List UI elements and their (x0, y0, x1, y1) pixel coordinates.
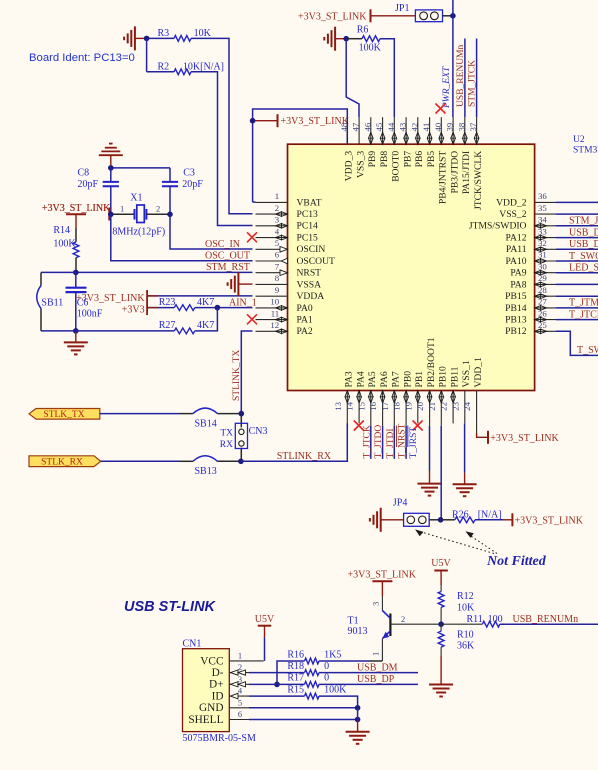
CN1 pin 4 (ID) (229, 695, 249, 697)
wire net pin 31 (556, 260, 598, 262)
U2 pin 17 (PA7) (393, 391, 395, 426)
svg-text:4: 4 (275, 226, 280, 236)
svg-text:SB13: SB13 (195, 466, 217, 477)
U2 pin 6 (OSCOUT) (256, 260, 288, 262)
U2 pin 48 (VDD_3) (346, 117, 348, 144)
svg-text:100nF: 100nF (77, 309, 103, 320)
svg-text:42: 42 (409, 123, 419, 132)
resistor R27 (76, 330, 175, 332)
node C6 bottom (73, 328, 79, 334)
svg-text:0: 0 (324, 661, 329, 672)
solder bridge SB14 (193, 408, 218, 414)
U2 pin 24 (VDD_1) (476, 391, 478, 424)
svg-text:PC13: PC13 (297, 209, 319, 220)
U2 pin 38 (PA15/JTDI) (464, 117, 466, 144)
wire VDDA (147, 295, 252, 297)
svg-text:R18: R18 (287, 661, 304, 672)
svg-text:PA9: PA9 (510, 268, 526, 279)
svg-text:29: 29 (538, 273, 547, 283)
svg-text:X1: X1 (130, 193, 142, 204)
node T1 base junction (438, 621, 444, 627)
svg-text:C8: C8 (78, 168, 90, 179)
wire STLK_TX (100, 413, 180, 415)
svg-text:+3V3_ST_LINK: +3V3_ST_LINK (515, 515, 584, 526)
wire pin38 vertical (464, 39, 466, 118)
node crystal rail (108, 165, 114, 171)
U2 pin 39 (PB3/JTDO) (452, 117, 454, 144)
wire CN1 pin5 (249, 707, 358, 709)
svg-text:VSS_1: VSS_1 (461, 360, 472, 387)
U2 pin 5 (OSCIN) (256, 248, 288, 250)
svg-text:12: 12 (270, 320, 279, 330)
svg-text:1: 1 (371, 652, 381, 656)
svg-text:T_JTCK: T_JTCK (569, 309, 598, 320)
svg-text:STLINK_RX: STLINK_RX (277, 451, 332, 462)
svg-text:3: 3 (238, 674, 242, 684)
svg-text:T_SWO: T_SWO (569, 251, 598, 262)
svg-text:15: 15 (356, 401, 366, 410)
svg-text:T_JRST: T_JRST (409, 427, 419, 459)
svg-text:26: 26 (538, 308, 547, 318)
wire net pin 26 (556, 319, 598, 321)
svg-text:VDD_2: VDD_2 (496, 197, 527, 208)
wire SB11 bottom (41, 330, 76, 332)
svg-text:OSCOUT: OSCOUT (297, 256, 336, 267)
svg-text:PA0: PA0 (297, 303, 313, 314)
svg-text:PA2: PA2 (297, 326, 313, 337)
svg-text:PA12: PA12 (506, 233, 527, 244)
U2 pin 37 (JTCK/SWCLK) (476, 117, 478, 144)
wire/net T_JTDI pin 17 (393, 426, 395, 459)
wire R23 to pin10 (195, 307, 253, 309)
U2 pin 28 (PB15) (535, 295, 556, 297)
wire net pin 27 (556, 307, 598, 309)
U2 pin 42 (PB6) (417, 117, 419, 144)
U2 pin 45 (PB8) (382, 117, 384, 144)
svg-text:PB5: PB5 (426, 151, 437, 168)
svg-text:PA4: PA4 (355, 371, 366, 387)
U2 pin 44 (BOOT0) (393, 117, 395, 144)
svg-text:PB7: PB7 (402, 151, 413, 168)
svg-text:31: 31 (538, 250, 547, 260)
svg-text:PB1: PB1 (414, 371, 425, 388)
svg-text:6: 6 (238, 709, 242, 719)
U2 pin 26 (PB13) (535, 319, 556, 321)
svg-text:3: 3 (371, 602, 381, 606)
svg-text:TX: TX (220, 428, 233, 438)
ground (CN1) (357, 720, 359, 732)
wire pin23 to ground (464, 423, 466, 472)
svg-text:R12: R12 (457, 591, 474, 602)
svg-text:U2: U2 (573, 135, 585, 145)
svg-text:8: 8 (275, 273, 280, 283)
svg-text:STM_RST: STM_RST (206, 262, 250, 273)
svg-text:PB12: PB12 (505, 326, 527, 337)
svg-text:NRST: NRST (297, 268, 322, 279)
svg-text:3: 3 (275, 215, 280, 225)
svg-text:STM32F103CBT6: STM32F103CBT6 (573, 146, 598, 156)
svg-text:VSSA: VSSA (297, 279, 322, 290)
svg-text:PA7: PA7 (391, 371, 402, 387)
U2 pin 40 (PB4/JNTRST) (440, 117, 442, 144)
svg-text:USB_RENUMn: USB_RENUMn (456, 44, 466, 107)
svg-text:JP4: JP4 (393, 498, 407, 509)
svg-text:4K7: 4K7 (197, 320, 214, 331)
wire/net T_JTCK pin 15 (370, 426, 372, 459)
svg-text:USB_DM: USB_DM (357, 662, 398, 673)
svg-text:C3: C3 (183, 168, 195, 179)
svg-text:2: 2 (401, 614, 405, 624)
svg-text:T_JTDI: T_JTDI (386, 428, 396, 458)
U2 pin 33 (PA12) (535, 237, 556, 239)
svg-text:VSS_2: VSS_2 (499, 209, 526, 220)
svg-text:R17: R17 (287, 673, 304, 684)
svg-text:PC14: PC14 (297, 221, 319, 232)
wire SB13 to junction (218, 460, 241, 462)
wire R26 to power (475, 519, 504, 521)
node R14 bottom (73, 270, 79, 276)
wire X1 to OSCOUT (111, 214, 253, 260)
svg-text:PC15: PC15 (297, 233, 319, 244)
wire R6 to pin44(BOOT0) (380, 39, 394, 118)
svg-text:43: 43 (398, 122, 408, 131)
svg-text:USB ST-LINK: USB ST-LINK (124, 599, 217, 615)
svg-text:7: 7 (275, 261, 280, 271)
resistor R2 (147, 71, 174, 73)
no-ERC cross pin4 (247, 232, 257, 242)
capacitor C6 (75, 272, 77, 287)
svg-text:PB9: PB9 (367, 151, 378, 168)
CN1 pin 5 (GND) (229, 707, 249, 709)
svg-text:RX: RX (220, 440, 233, 450)
U2 pin 30 (PA9) (535, 272, 556, 274)
svg-text:25: 25 (538, 320, 547, 330)
resistor R10 (440, 624, 442, 631)
svg-text:[N/A]: [N/A] (478, 509, 502, 520)
U2 pin 12 (PA2) (256, 330, 288, 332)
svg-text:T_NRST: T_NRST (398, 423, 408, 458)
wire pin24 to power (476, 423, 478, 433)
svg-text:+3V3_ST_LINK: +3V3_ST_LINK (348, 570, 417, 581)
U2 pin 46 (PB9) (370, 117, 372, 144)
ground (pin20) (418, 483, 442, 485)
svg-text:T_SWDIO_IN: T_SWDIO_IN (577, 345, 598, 356)
svg-text:OSC_IN: OSC_IN (205, 239, 240, 250)
svg-text:STM_JTMS: STM_JTMS (569, 216, 598, 227)
svg-text:VBAT: VBAT (297, 197, 322, 208)
svg-text:Not Fitted: Not Fitted (486, 554, 547, 569)
svg-text:VDDA: VDDA (297, 291, 325, 302)
svg-text:21: 21 (427, 402, 437, 411)
svg-text:13: 13 (333, 401, 343, 410)
svg-text:30: 30 (538, 261, 547, 271)
svg-text:STM_JTCK: STM_JTCK (468, 60, 478, 107)
svg-text:USB_DP: USB_DP (357, 674, 395, 685)
ground (C6) (75, 331, 77, 343)
svg-text:R23: R23 (159, 297, 176, 308)
transistor T1 (381, 596, 383, 611)
U2 pin 3 (PC14) (256, 225, 288, 227)
svg-text:37: 37 (468, 122, 478, 131)
svg-text:VDD_1: VDD_1 (473, 357, 484, 388)
svg-text:U5V: U5V (431, 558, 451, 569)
node JP1 junction (450, 13, 456, 19)
svg-text:U5V: U5V (255, 614, 275, 625)
svg-text:PA5: PA5 (367, 371, 378, 387)
svg-text:48: 48 (339, 122, 349, 131)
svg-text:PB3/JTDO: PB3/JTDO (449, 151, 460, 194)
resistor R12 (440, 585, 442, 592)
resistor R17 (249, 683, 305, 685)
no-ERC cross pin11 (247, 314, 257, 324)
svg-text:+3V3_ST_LINK: +3V3_ST_LINK (298, 12, 367, 23)
svg-text:40: 40 (433, 122, 443, 131)
node TX junction (239, 411, 245, 417)
svg-text:T_JTMS: T_JTMS (569, 298, 598, 309)
U2 pin 18 (PB0) (405, 391, 407, 426)
svg-text:14: 14 (345, 401, 355, 410)
U2 pin 29 (PA8) (535, 283, 556, 285)
U2 pin 13 (PA3) (346, 391, 348, 426)
U2 pin 20 (PB2/BOOT1) (429, 391, 431, 426)
U2 pin 34 (JTMS/SWDIO) (535, 225, 556, 227)
svg-text:8MHz(12pF): 8MHz(12pF) (112, 227, 165, 238)
node R16/D+ junction (274, 682, 280, 688)
connector CN1 body (183, 649, 230, 732)
ground (R3/R2) (134, 26, 136, 50)
svg-text:AIN_1: AIN_1 (229, 297, 257, 308)
wire junction down (146, 38, 148, 71)
wire CN1 pin6 (249, 719, 358, 721)
CN1 pin 3 (D+) (229, 683, 249, 685)
svg-text:R16: R16 (287, 650, 304, 661)
U2 pin 14 (PA4) (358, 391, 360, 424)
U2 pin 1 (VBAT) (256, 201, 288, 203)
svg-text:9: 9 (275, 285, 280, 295)
svg-text:PA11: PA11 (506, 244, 527, 255)
U2 pin 9 (VDDA) (256, 295, 288, 297)
wire net pin 30 (556, 272, 598, 274)
U2 pin 27 (PB14) (535, 307, 556, 309)
svg-text:18: 18 (392, 401, 402, 410)
svg-text:35: 35 (538, 203, 547, 213)
svg-text:23: 23 (450, 401, 460, 410)
svg-text:SHELL: SHELL (188, 714, 223, 726)
svg-text:PA8: PA8 (510, 279, 526, 290)
resistor R11 (441, 623, 482, 625)
no-ERC cross pin19 (413, 421, 423, 431)
svg-text:R27: R27 (159, 320, 176, 331)
wire crystal top rail (111, 167, 170, 169)
svg-text:1: 1 (120, 204, 124, 214)
svg-text:100K: 100K (359, 43, 382, 54)
svg-text:VDD_3: VDD_3 (344, 151, 355, 182)
CN1 pin 2 (D-) (229, 672, 249, 674)
jumper JP4 (404, 513, 430, 526)
svg-text:R6: R6 (357, 25, 369, 36)
svg-text:2: 2 (156, 204, 160, 214)
wire net pin 28 (556, 295, 598, 297)
wire pin21 down (440, 426, 442, 520)
svg-text:R15: R15 (287, 684, 304, 695)
power +3V3_ST_LINK (R26) (511, 513, 513, 526)
wire SB14 to junction (218, 413, 242, 415)
resistor R14 (75, 228, 77, 242)
svg-text:R14: R14 (53, 225, 70, 236)
U2 pin 7 (NRST) (256, 272, 288, 274)
ground (pin23) (453, 483, 477, 485)
resistor R26 (441, 519, 455, 521)
svg-text:100K: 100K (53, 239, 76, 250)
connector CN3 (240, 414, 242, 428)
power +3V3_ST_LINK (pin24) (487, 431, 489, 444)
capacitor C8 (110, 168, 112, 182)
svg-text:STLK_RX: STLK_RX (41, 458, 83, 468)
svg-text:+3V3_ST_LINK: +3V3_ST_LINK (490, 433, 559, 444)
node RX junction (238, 459, 244, 465)
svg-text:5075BMR-05-SM: 5075BMR-05-SM (183, 733, 256, 744)
wire net pin 35 (556, 213, 598, 215)
svg-text:SB14: SB14 (195, 419, 217, 430)
svg-text:9013: 9013 (348, 626, 368, 637)
wire/net T_JTDO pin 16 (382, 426, 384, 459)
svg-text:1: 1 (275, 191, 279, 201)
wire net pin 32 (556, 248, 598, 250)
wire STLK_RX (101, 460, 180, 462)
svg-text:39: 39 (445, 122, 455, 131)
U2 pin 4 (PC15) (256, 237, 288, 239)
wire RX to pin13 (241, 423, 347, 461)
svg-text:T_JTDO: T_JTDO (374, 425, 384, 459)
wire pin37 vertical (476, 39, 478, 118)
svg-text:20: 20 (415, 401, 425, 410)
svg-text:17: 17 (380, 401, 390, 410)
svg-text:D+: D+ (209, 679, 224, 691)
svg-text:47: 47 (351, 122, 361, 131)
svg-text:5: 5 (238, 697, 242, 707)
node X1 pin2 (167, 212, 173, 218)
svg-text:16: 16 (368, 401, 378, 410)
svg-text:20pF: 20pF (182, 179, 203, 190)
svg-text:R2: R2 (158, 62, 170, 73)
port STLK_TX (29, 409, 100, 420)
svg-text:STLK_TX: STLK_TX (43, 410, 84, 420)
U2 pin 2 (PC13) (256, 213, 288, 215)
svg-text:R26: R26 (452, 509, 469, 520)
node R3/R2 junction (144, 36, 150, 42)
svg-text:10: 10 (270, 297, 279, 307)
svg-text:PB11: PB11 (449, 366, 460, 387)
svg-text:PB13: PB13 (505, 315, 527, 326)
svg-text:PWR_EXT: PWR_EXT (442, 66, 452, 109)
svg-text:R3: R3 (158, 28, 170, 39)
solder bridge SB13 (193, 456, 218, 462)
capacitor C3 (169, 168, 171, 182)
node R6 junction (343, 36, 349, 42)
solder bridge SB11 (41, 271, 76, 273)
svg-text:OSC_OUT: OSC_OUT (205, 251, 250, 262)
ic U2 body (288, 144, 535, 390)
U2 pin 47 (VSS_3) (358, 117, 360, 144)
wire gnd to pin47(VSS_3) (346, 39, 359, 118)
svg-text:PB0: PB0 (402, 371, 413, 388)
svg-text:+3V3_ST_LINK: +3V3_ST_LINK (76, 293, 145, 304)
CN1 pin 6 (SHELL) (229, 719, 249, 721)
U2 pin 19 (PB1) (417, 391, 419, 424)
svg-text:BOOT0: BOOT0 (391, 151, 402, 182)
svg-text:PA3: PA3 (344, 371, 355, 387)
svg-text:24: 24 (462, 401, 472, 410)
node AIN junction (215, 305, 221, 311)
svg-text:VCC: VCC (200, 655, 223, 667)
svg-text:20pF: 20pF (78, 179, 99, 190)
wire net pin 36 (556, 201, 598, 203)
wire VBAT rail (253, 109, 348, 202)
ground (R6) (334, 27, 336, 51)
node CN1 pin6 junction (355, 717, 361, 723)
wire pin25 net (556, 331, 598, 355)
svg-text:USB_DM: USB_DM (569, 239, 598, 250)
svg-text:LED_STLINK: LED_STLINK (569, 263, 598, 274)
svg-text:+3V3: +3V3 (122, 304, 145, 315)
ground (R10) (429, 684, 453, 686)
node VBAT rail junction (250, 118, 256, 124)
svg-text:100: 100 (488, 614, 503, 625)
wire net pin 33 (556, 237, 598, 239)
svg-text:4K7: 4K7 (197, 297, 214, 308)
svg-text:ID: ID (212, 691, 224, 703)
svg-text:34: 34 (538, 215, 547, 225)
node X1 pin1 (108, 212, 114, 218)
U2 pin 36 (VDD_2) (535, 201, 556, 203)
svg-text:USB_DP: USB_DP (569, 227, 598, 238)
svg-text:PB6: PB6 (414, 151, 425, 168)
svg-text:JTMS/SWDIO: JTMS/SWDIO (469, 221, 527, 232)
svg-text:PA15/JTDI: PA15/JTDI (461, 151, 472, 194)
wire/net T_NRST pin 18 (405, 426, 407, 459)
svg-text:36: 36 (538, 191, 547, 201)
svg-text:PA6: PA6 (379, 371, 390, 387)
svg-text:PB14: PB14 (505, 303, 527, 314)
svg-text:22: 22 (439, 402, 449, 411)
svg-text:19: 19 (403, 401, 413, 410)
svg-text:CN3: CN3 (249, 426, 268, 437)
svg-text:32: 32 (538, 238, 547, 248)
CN1 pin 1 (VCC) (229, 660, 263, 662)
svg-text:USB_RENUMn: USB_RENUMn (513, 614, 579, 625)
wire R3 to pin2 (191, 38, 253, 213)
wire JP1 to pin39 (443, 15, 453, 17)
svg-text:D-: D- (212, 667, 224, 679)
resistor R18 (249, 672, 305, 674)
svg-text:1: 1 (238, 650, 242, 660)
U2 pin 15 (PA5) (370, 391, 372, 426)
svg-text:10K: 10K (194, 28, 212, 39)
svg-text:GND: GND (199, 702, 223, 714)
svg-text:OSCIN: OSCIN (297, 244, 326, 255)
U2 pin 11 (PA1) (256, 319, 288, 321)
svg-text:10K: 10K (457, 602, 475, 613)
svg-text:R10: R10 (457, 629, 474, 640)
svg-text:100K: 100K (324, 684, 347, 695)
wire pin5-pin6 junction (357, 708, 359, 720)
U2 pin 25 (PB12) (535, 330, 556, 332)
svg-text:38: 38 (456, 122, 466, 131)
svg-text:CN1: CN1 (183, 638, 202, 649)
svg-text:10K[N/A]: 10K[N/A] (183, 62, 224, 73)
svg-text:0: 0 (324, 673, 329, 684)
port STLK_RX (29, 456, 101, 467)
